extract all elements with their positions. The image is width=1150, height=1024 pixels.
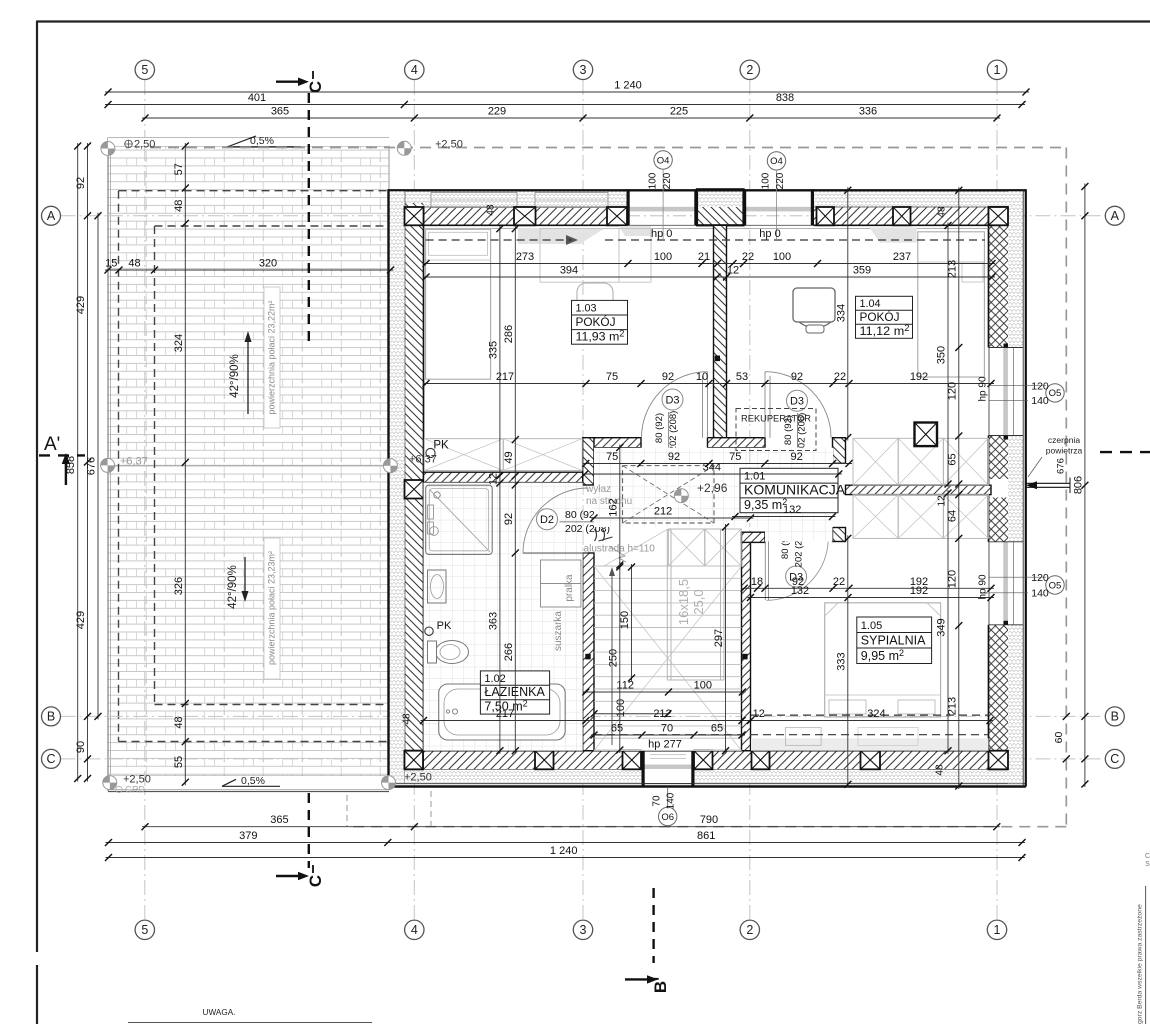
svg-text:394: 394	[560, 265, 578, 277]
svg-text:UWAGA.: UWAGA.	[203, 1008, 236, 1017]
svg-text:D3: D3	[665, 394, 679, 406]
svg-text:100: 100	[773, 251, 791, 263]
svg-text:100: 100	[647, 172, 658, 189]
svg-text:powietrza: powietrza	[1046, 446, 1083, 456]
svg-text:379: 379	[239, 830, 257, 842]
svg-text:333: 333	[835, 652, 847, 670]
svg-text:140: 140	[1031, 395, 1049, 407]
svg-text:16x18,5: 16x18,5	[676, 579, 691, 625]
svg-text:0,5%: 0,5%	[241, 775, 265, 787]
svg-text:100: 100	[760, 172, 771, 189]
svg-text:O4: O4	[657, 155, 670, 166]
svg-text:213: 213	[946, 260, 958, 278]
svg-text:D2: D2	[540, 514, 554, 526]
svg-text:3: 3	[580, 923, 587, 937]
svg-text:hp 0: hp 0	[651, 228, 672, 240]
svg-text:12: 12	[487, 473, 499, 485]
svg-text:czerpnia: czerpnia	[1048, 435, 1080, 445]
svg-text:75: 75	[606, 451, 618, 463]
svg-text:1 240: 1 240	[550, 845, 578, 857]
svg-text:2: 2	[746, 923, 753, 937]
svg-text:140: 140	[666, 792, 677, 809]
svg-text:324: 324	[867, 708, 885, 720]
svg-text:320: 320	[259, 258, 277, 270]
svg-text:132: 132	[783, 504, 801, 516]
svg-text:65: 65	[611, 723, 623, 735]
svg-text:5: 5	[141, 63, 148, 77]
svg-text:A: A	[1111, 209, 1120, 223]
svg-text:80 (92): 80 (92)	[654, 413, 665, 443]
svg-text:POKÓJ: POKÓJ	[860, 310, 900, 324]
svg-text:365: 365	[271, 106, 289, 118]
svg-text:429: 429	[75, 611, 87, 629]
svg-text:100: 100	[694, 680, 712, 692]
svg-text:PK: PK	[437, 620, 452, 632]
svg-text:D3: D3	[790, 396, 804, 408]
svg-text:C: C	[306, 875, 325, 887]
svg-text:1.03: 1.03	[576, 303, 597, 315]
svg-text:PK: PK	[433, 440, 449, 452]
svg-text:42°/90%: 42°/90%	[229, 354, 241, 398]
svg-text:326: 326	[173, 577, 185, 595]
svg-text:336: 336	[859, 106, 877, 118]
svg-text:4: 4	[411, 63, 418, 77]
svg-text:1 240: 1 240	[614, 80, 642, 92]
svg-text:hp 90: hp 90	[978, 376, 989, 401]
svg-text:120: 120	[1031, 572, 1049, 584]
svg-text:B': B'	[651, 977, 670, 993]
svg-text:401: 401	[248, 92, 266, 104]
svg-text:65: 65	[711, 723, 723, 735]
svg-text:212: 212	[654, 506, 672, 518]
svg-text:229: 229	[488, 106, 506, 118]
svg-text:140: 140	[1031, 588, 1049, 600]
svg-text:132: 132	[791, 585, 809, 597]
svg-text:75: 75	[606, 371, 618, 383]
svg-text:22: 22	[833, 576, 845, 588]
svg-text:365: 365	[270, 814, 288, 826]
svg-text:25,0: 25,0	[691, 589, 706, 614]
svg-text:C: C	[46, 752, 55, 766]
svg-text:powierzchnia połaci 23,23m²: powierzchnia połaci 23,23m²	[267, 551, 277, 665]
svg-text:70: 70	[652, 795, 663, 807]
svg-text:O5: O5	[1049, 388, 1062, 399]
svg-text:273: 273	[516, 251, 534, 263]
svg-text:48: 48	[937, 206, 948, 218]
svg-text:C: C	[1145, 853, 1150, 860]
svg-text:112: 112	[616, 680, 634, 692]
svg-text:359: 359	[853, 265, 871, 277]
svg-text:65: 65	[946, 453, 958, 465]
svg-text:120: 120	[946, 570, 958, 588]
svg-text:POKÓJ: POKÓJ	[576, 315, 616, 329]
svg-text:9,35 m2: 9,35 m2	[744, 497, 787, 512]
svg-text:9,95 m2: 9,95 m2	[861, 648, 904, 663]
svg-text:55: 55	[173, 756, 185, 768]
svg-text:S: S	[1145, 861, 1150, 868]
svg-text:806: 806	[1072, 476, 1084, 494]
svg-text:192: 192	[910, 585, 928, 597]
svg-text:266: 266	[503, 643, 515, 661]
svg-text:12: 12	[727, 265, 739, 277]
svg-text:2,50: 2,50	[134, 139, 155, 151]
svg-text:+2,50: +2,50	[435, 139, 463, 151]
svg-text:1: 1	[994, 63, 1001, 77]
svg-text:GRD: GRD	[125, 785, 146, 795]
svg-text:75: 75	[729, 451, 741, 463]
svg-text:11,12 m2: 11,12 m2	[860, 323, 910, 338]
svg-text:REKUPERATOR: REKUPERATOR	[741, 414, 811, 424]
svg-text:100: 100	[615, 699, 627, 717]
svg-text:C: C	[1110, 752, 1119, 766]
svg-text:+2,96: +2,96	[697, 481, 728, 495]
svg-text:pralka: pralka	[564, 574, 575, 602]
svg-text:12: 12	[753, 708, 765, 720]
svg-text:48: 48	[173, 200, 185, 212]
svg-text:gorz Berda wszelkie prawa zast: gorz Berda wszelkie prawa zastrzeżone	[1137, 904, 1144, 1024]
svg-text:335: 335	[487, 341, 499, 359]
svg-text:220: 220	[662, 172, 673, 189]
svg-text:42°/90%: 42°/90%	[227, 565, 239, 609]
svg-text:70: 70	[661, 723, 673, 735]
svg-text:92: 92	[790, 451, 802, 463]
svg-text:SYPIALNIA: SYPIALNIA	[861, 634, 926, 648]
svg-text:48: 48	[934, 764, 945, 776]
svg-text:192: 192	[910, 371, 928, 383]
svg-text:92: 92	[662, 371, 674, 383]
svg-text:100: 100	[654, 251, 672, 263]
svg-text:349: 349	[936, 618, 948, 636]
svg-text:162: 162	[607, 498, 619, 516]
svg-text:C: C	[306, 81, 325, 93]
svg-text:324: 324	[173, 334, 185, 352]
svg-text:balustrada h=110: balustrada h=110	[578, 544, 655, 555]
svg-text:hp 277: hp 277	[648, 739, 682, 751]
svg-text:12: 12	[937, 495, 948, 507]
svg-text:92: 92	[75, 177, 87, 189]
svg-text:KOMUNIKACJA: KOMUNIKACJA	[744, 481, 846, 497]
svg-text:suszarka: suszarka	[553, 611, 564, 651]
svg-text:429: 429	[75, 296, 87, 314]
svg-text:49: 49	[503, 451, 515, 463]
svg-text:286: 286	[503, 325, 515, 343]
svg-text:48: 48	[402, 713, 413, 725]
svg-text:790: 790	[700, 814, 718, 826]
svg-text:10: 10	[696, 371, 708, 383]
svg-text:64: 64	[946, 510, 958, 522]
svg-text:334: 334	[835, 304, 847, 322]
svg-text:15: 15	[105, 258, 117, 270]
svg-text:92: 92	[791, 371, 803, 383]
svg-text:838: 838	[776, 92, 794, 104]
svg-text:213: 213	[946, 697, 958, 715]
svg-text:344: 344	[703, 462, 721, 474]
svg-text:202 (208): 202 (208)	[668, 411, 679, 452]
svg-text:217: 217	[496, 708, 514, 720]
svg-text:4: 4	[411, 923, 418, 937]
svg-text:237: 237	[893, 251, 911, 263]
svg-text:B: B	[1111, 710, 1119, 724]
svg-text:wyłaz: wyłaz	[585, 484, 611, 495]
svg-text:A: A	[47, 209, 56, 223]
svg-text:92: 92	[668, 451, 680, 463]
svg-text:217: 217	[496, 371, 514, 383]
svg-text:3: 3	[580, 63, 587, 77]
svg-text:350: 350	[936, 346, 948, 364]
svg-text:11,93 m2: 11,93 m2	[576, 329, 625, 344]
svg-text:A': A'	[44, 434, 60, 455]
svg-text:22: 22	[742, 251, 754, 263]
svg-text:O4: O4	[770, 156, 783, 167]
svg-text:hp 0: hp 0	[759, 228, 780, 240]
svg-text:1: 1	[994, 923, 1001, 937]
svg-text:220: 220	[775, 172, 786, 189]
svg-text:120: 120	[946, 382, 958, 400]
svg-text:22: 22	[834, 371, 846, 383]
svg-text:150: 150	[619, 611, 631, 629]
svg-text:53: 53	[736, 371, 748, 383]
svg-text:O6: O6	[661, 812, 674, 823]
svg-text:60: 60	[1053, 732, 1065, 744]
svg-text:powierzchnia połaci 23,22m²: powierzchnia połaci 23,22m²	[267, 300, 277, 414]
svg-text:120: 120	[1031, 381, 1049, 393]
svg-text:18: 18	[751, 576, 763, 588]
svg-text:B: B	[47, 710, 55, 724]
svg-text:1.05: 1.05	[861, 620, 882, 632]
svg-text:48: 48	[173, 716, 185, 728]
svg-text:92: 92	[503, 513, 515, 525]
svg-text:1.02: 1.02	[484, 673, 505, 685]
svg-text:297: 297	[713, 629, 725, 647]
svg-text:O5: O5	[1049, 580, 1062, 591]
svg-text:676: 676	[86, 457, 98, 475]
svg-text:+6,37: +6,37	[409, 454, 437, 466]
svg-text:48: 48	[486, 204, 497, 216]
svg-text:363: 363	[487, 612, 499, 630]
svg-text:hp 90: hp 90	[978, 574, 989, 599]
svg-text:+6,37: +6,37	[120, 456, 148, 468]
svg-text:225: 225	[670, 106, 688, 118]
svg-text:0,5%: 0,5%	[250, 135, 274, 147]
svg-text:861: 861	[697, 830, 715, 842]
svg-text:57: 57	[173, 163, 185, 175]
svg-text:90: 90	[75, 741, 87, 753]
svg-text:1.04: 1.04	[860, 298, 881, 310]
svg-text:48: 48	[128, 258, 140, 270]
svg-text:+2,50: +2,50	[404, 772, 432, 784]
svg-text:676: 676	[1056, 458, 1067, 474]
svg-text:250: 250	[607, 649, 619, 667]
svg-text:2: 2	[746, 63, 753, 77]
svg-text:5: 5	[141, 923, 148, 937]
svg-text:21: 21	[698, 251, 710, 263]
